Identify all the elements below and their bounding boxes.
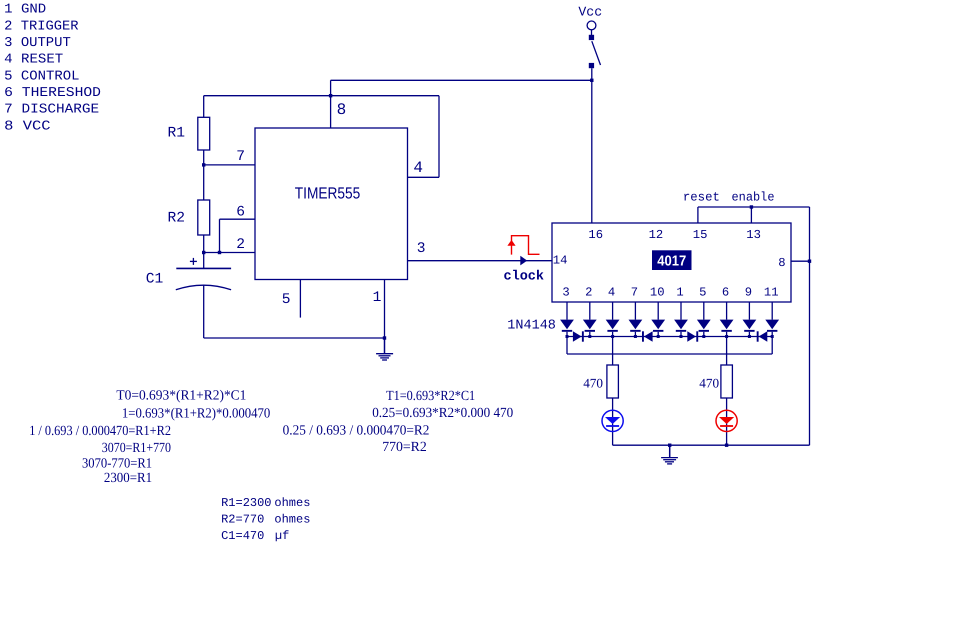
resistor R4 body (470) <box>721 365 733 398</box>
value label C1=470 uf <box>221 529 289 543</box>
resistor R2 body <box>198 200 210 235</box>
wire reset/enable rail <box>698 206 810 208</box>
svg-text:T1=0.693*R2*C1: T1=0.693*R2*C1 <box>386 389 475 404</box>
svg-text:R1=2300: R1=2300 <box>221 496 271 510</box>
wire pin 15 stub up <box>697 207 699 223</box>
pin number 7 (555) <box>236 149 245 165</box>
pin list label: 3 OUTPUT <box>4 36 71 51</box>
svg-text:12: 12 <box>649 228 664 242</box>
svg-text:7: 7 <box>236 149 245 165</box>
wire R1 bottom to R2 top <box>203 150 205 200</box>
pin number 4 (555) <box>413 159 423 177</box>
wire pin 6 horizontal <box>220 218 256 220</box>
svg-text:8 VCC: 8 VCC <box>4 119 50 134</box>
svg-text:5: 5 <box>282 292 291 308</box>
svg-text:2300=R1: 2300=R1 <box>104 471 152 486</box>
pin number 15 (4017) <box>693 228 708 242</box>
svg-text:Vcc: Vcc <box>578 5 602 20</box>
equation left 4: 3070=R1+770 <box>102 441 171 456</box>
pin number 9 (4017 output) <box>745 285 752 299</box>
svg-text:7 DISCHARGE: 7 DISCHARGE <box>4 103 99 118</box>
diode D2 1N4148 (vertical, from 4017 pin 2) <box>583 302 597 337</box>
wire pin6-pin2 link vertical <box>219 219 221 252</box>
label reset <box>683 191 720 205</box>
junction node Vcc rail <box>590 79 593 82</box>
pin number 8 (4017) <box>778 256 785 270</box>
svg-text:470: 470 <box>699 375 719 390</box>
svg-text:clock: clock <box>504 270 545 285</box>
svg-text:C1=470: C1=470 <box>221 529 264 543</box>
label C1 <box>146 272 164 288</box>
junction node bus at D7 <box>702 335 705 338</box>
diode D7 1N4148 (vertical, from 4017 pin 5) <box>697 302 711 337</box>
pin list label: 2 TRIGGER <box>4 19 78 34</box>
diode D14 (horizontal left) <box>757 331 768 341</box>
svg-text:15: 15 <box>693 228 708 242</box>
svg-text:2 TRIGGER: 2 TRIGGER <box>4 19 78 34</box>
pin number 7 (4017 output) <box>631 285 638 299</box>
wire diode bus rail <box>567 336 772 338</box>
junction node bus at D5 <box>657 335 660 338</box>
svg-text:1: 1 <box>676 285 683 299</box>
pin number 6 (555) <box>236 204 245 220</box>
equation left 5: 3070-770=R1 <box>82 457 152 472</box>
wire R1 top <box>203 96 205 118</box>
svg-text:1 GND: 1 GND <box>4 3 46 18</box>
wire bus to R4 <box>726 337 728 366</box>
svg-text:1: 1 <box>373 290 382 306</box>
svg-text:0.25 / 0.693 / 0.000470=R2: 0.25 / 0.693 / 0.000470=R2 <box>283 424 430 439</box>
pin number 5 (4017 output) <box>699 285 706 299</box>
junction node bottom/ground <box>668 444 671 447</box>
equation left 1: T0=0.693*(R1+R2)*C1 <box>116 389 246 404</box>
diode D1 1N4148 (vertical, from 4017 pin 3) <box>560 302 574 337</box>
resistor R3 body (470) <box>607 365 619 398</box>
label clock <box>504 270 545 285</box>
wire R2 bottom to C1 <box>203 235 205 268</box>
wire bus left stub down <box>566 337 568 355</box>
svg-text:3: 3 <box>417 241 426 257</box>
diode D11 (horizontal right) <box>573 331 584 341</box>
wire bottom rail right <box>613 444 810 446</box>
wire pin 8 vertical <box>330 80 332 128</box>
pin number 4 (4017 output) <box>608 285 615 299</box>
diode D8 1N4148 (vertical, from 4017 pin 6) <box>720 302 734 337</box>
capacitor C1 curved plate <box>176 285 231 290</box>
pin list label: 5 CONTROL <box>4 69 79 84</box>
diode D5 1N4148 (vertical, from 4017 pin 10) <box>651 302 665 337</box>
label 4017 badge <box>652 250 692 270</box>
junction node enable/pin13 <box>750 205 753 208</box>
svg-text:8: 8 <box>778 256 785 270</box>
diode D9 1N4148 (vertical, from 4017 pin 9) <box>743 302 757 337</box>
resistor R1 body <box>198 117 210 150</box>
diode D3 1N4148 (vertical, from 4017 pin 4) <box>606 302 620 337</box>
wire pin 2 horizontal <box>204 252 255 254</box>
label enable <box>732 191 775 205</box>
svg-text:9: 9 <box>745 285 752 299</box>
wire bottom rail (C1 to pin1) <box>204 337 385 339</box>
junction node pin2 left <box>202 251 205 254</box>
pin number 8 (555) <box>337 101 347 119</box>
svg-text:2: 2 <box>236 237 245 253</box>
junction node bus at D10 <box>771 335 774 338</box>
pin number 3 (4017 output) <box>562 285 569 299</box>
label R1 <box>168 126 186 142</box>
svg-text:ohmes: ohmes <box>274 496 310 510</box>
wire pin4 riser vertical <box>438 96 440 178</box>
wire lower bus <box>567 353 772 355</box>
svg-text:T0=0.693*(R1+R2)*C1: T0=0.693*(R1+R2)*C1 <box>116 389 246 404</box>
value label R2=770 ohmes <box>221 513 310 527</box>
pin number 13 (4017) <box>746 228 761 242</box>
svg-text:4017: 4017 <box>657 253 686 269</box>
svg-text:6: 6 <box>722 285 729 299</box>
svg-text:µf: µf <box>275 529 289 543</box>
junction node bottom/LED2 <box>725 444 728 447</box>
svg-text:11: 11 <box>764 285 779 299</box>
wire Vcc rail upper (to switch) <box>331 79 592 81</box>
pin number 1 (555) <box>373 290 382 306</box>
svg-text:5 CONTROL: 5 CONTROL <box>4 69 79 84</box>
svg-text:770=R2: 770=R2 <box>382 440 427 455</box>
pin number 5 (555) <box>282 292 291 308</box>
wire Vcc circle to switch <box>591 30 593 35</box>
junction node pin7 <box>202 163 205 166</box>
svg-text:4: 4 <box>413 159 423 177</box>
pin list label: 7 DISCHARGE <box>4 103 99 118</box>
equation left 2: 1=0.693*(R1+R2)*0.000470 <box>122 406 270 421</box>
pin list label: 8 VCC <box>4 119 50 134</box>
clock pulse waveform (red) <box>512 236 540 255</box>
svg-text:7: 7 <box>631 285 638 299</box>
pin number 14 (4017) <box>553 254 568 268</box>
pin number 11 (4017 output) <box>764 285 779 299</box>
pin list label: 4 RESET <box>4 53 63 68</box>
diode D10 1N4148 (vertical, from 4017 pin 11) <box>765 302 779 337</box>
wire switch to junction <box>591 68 593 80</box>
junction node bus at D2 <box>588 335 591 338</box>
pin number 2 (555) <box>236 237 245 253</box>
junction node pin2 link <box>218 251 221 254</box>
op-amp U1 box (TIMER555) <box>255 128 408 280</box>
wire bus right stub down <box>771 337 773 355</box>
pin number 16 (4017) <box>588 228 603 242</box>
svg-text:4: 4 <box>608 285 615 299</box>
IC U2 box (4017) <box>552 223 791 302</box>
svg-text:R1: R1 <box>168 126 186 142</box>
wire pin 4 horizontal <box>408 176 440 178</box>
diode D6 1N4148 (vertical, from 4017 pin 1) <box>674 302 688 337</box>
wire R4 to LED2 to bottom rail <box>726 398 728 445</box>
equation right 2: 0.25=0.693*R2*0.000 470 <box>372 406 513 421</box>
clock arrowhead <box>520 256 527 266</box>
svg-text:3: 3 <box>562 285 569 299</box>
junction node bus at D3 <box>611 335 614 338</box>
svg-text:6 THERESHOD: 6 THERESHOD <box>4 86 101 101</box>
svg-text:1 / 0.693 / 0.000470=R1+R2: 1 / 0.693 / 0.000470=R1+R2 <box>29 424 171 439</box>
pin number 10 (4017 output) <box>650 285 665 299</box>
svg-text:enable: enable <box>732 191 775 205</box>
junction node pin8/riser <box>808 260 811 263</box>
svg-text:5: 5 <box>699 285 706 299</box>
wire pin 1 vertical <box>384 280 386 339</box>
junction node bus at D6 <box>680 335 683 338</box>
pin number 2 (4017 output) <box>585 285 592 299</box>
clock pulse arrow (red) <box>507 240 515 246</box>
switch S1 throw square <box>589 63 594 68</box>
wire right riser (reset rail to bottom rail) <box>809 207 811 445</box>
equation left 3: 1 / 0.693 / 0.000470=R1+R2 <box>29 424 171 439</box>
LED D15 blue <box>602 410 623 431</box>
diode D12 (horizontal left) <box>642 331 653 341</box>
ground (below 555 pin1) <box>376 338 393 360</box>
svg-text:2: 2 <box>585 285 592 299</box>
diode D4 1N4148 (vertical, from 4017 pin 7) <box>629 302 643 337</box>
wire Vcc junction to 4017 pin16 <box>591 80 593 223</box>
junction node bus at D8 <box>725 335 728 338</box>
wire R3 to LED1 to bottom rail <box>612 398 614 445</box>
junction node pin1/ground <box>383 336 386 339</box>
wire pin 8 horizontal <box>791 260 810 262</box>
pin number 3 (555) <box>417 241 426 257</box>
switch S1 blade <box>592 41 601 65</box>
svg-text:1N4148: 1N4148 <box>507 319 556 334</box>
svg-text:3 OUTPUT: 3 OUTPUT <box>4 36 71 51</box>
svg-text:4 RESET: 4 RESET <box>4 53 63 68</box>
svg-text:R2: R2 <box>168 211 186 227</box>
svg-text:8: 8 <box>337 101 347 119</box>
junction node pin8/top rail <box>329 94 332 97</box>
junction node bus at D9 <box>748 335 751 338</box>
wire pin3 to 4017 pin14 (clock net) <box>408 260 553 262</box>
svg-text:16: 16 <box>588 228 603 242</box>
junction node bus at D1 <box>566 335 569 338</box>
svg-text:TIMER555: TIMER555 <box>295 184 361 202</box>
pin number 1 (4017 output) <box>676 285 683 299</box>
pin list label: 6 THERESHOD <box>4 86 101 101</box>
svg-text:3070-770=R1: 3070-770=R1 <box>82 457 152 472</box>
label 1N4148 <box>507 319 556 334</box>
svg-text:3070=R1+770: 3070=R1+770 <box>102 441 171 456</box>
equation right 4: 770=R2 <box>382 440 427 455</box>
equation left 6: 2300=R1 <box>104 471 152 486</box>
label 470 (R3) <box>583 375 603 390</box>
label 470 (R4) <box>699 375 719 390</box>
value label R1=2300 ohmes <box>221 496 310 510</box>
label R2 <box>168 211 186 227</box>
svg-text:C1: C1 <box>146 272 164 288</box>
diode D13 (horizontal right) <box>687 331 698 341</box>
svg-text:ohmes: ohmes <box>274 513 310 527</box>
pin list label: 1 GND <box>4 3 46 18</box>
svg-text:470: 470 <box>583 375 603 390</box>
svg-text:13: 13 <box>746 228 761 242</box>
wire pin 7 horizontal <box>204 164 255 166</box>
equation right 1: T1=0.693*R2*C1 <box>386 389 475 404</box>
wire bus to R3 <box>612 337 614 366</box>
pin number 6 (4017 output) <box>722 285 729 299</box>
label Vcc <box>578 5 602 20</box>
label TIMER555 <box>295 184 361 202</box>
svg-text:1=0.693*(R1+R2)*0.000470: 1=0.693*(R1+R2)*0.000470 <box>122 406 270 421</box>
LED D16 red <box>716 410 737 431</box>
wire C1 bottom vertical <box>203 285 205 338</box>
capacitor C1 plus sign <box>190 258 197 265</box>
svg-text:10: 10 <box>650 285 665 299</box>
wire pin 13 stub up <box>750 207 752 223</box>
svg-text:reset: reset <box>683 191 720 205</box>
svg-text:6: 6 <box>236 204 245 220</box>
equation right 3: 0.25 / 0.693 / 0.000470=R2 <box>283 424 430 439</box>
switch S1 pole square <box>589 35 594 40</box>
svg-text:14: 14 <box>553 254 568 268</box>
svg-text:0.25=0.693*R2*0.000 470: 0.25=0.693*R2*0.000 470 <box>372 406 513 421</box>
wire top rail from R1 top to pin4 corner <box>204 95 439 97</box>
ground (bottom rail) <box>661 445 678 464</box>
junction node bus at D4 <box>634 335 637 338</box>
pin number 12 (4017) <box>649 228 664 242</box>
Vcc terminal circle <box>587 21 596 30</box>
svg-text:R2=770: R2=770 <box>221 513 264 527</box>
capacitor C1 top plate <box>176 267 231 269</box>
wire pin 5 stub <box>299 280 301 318</box>
